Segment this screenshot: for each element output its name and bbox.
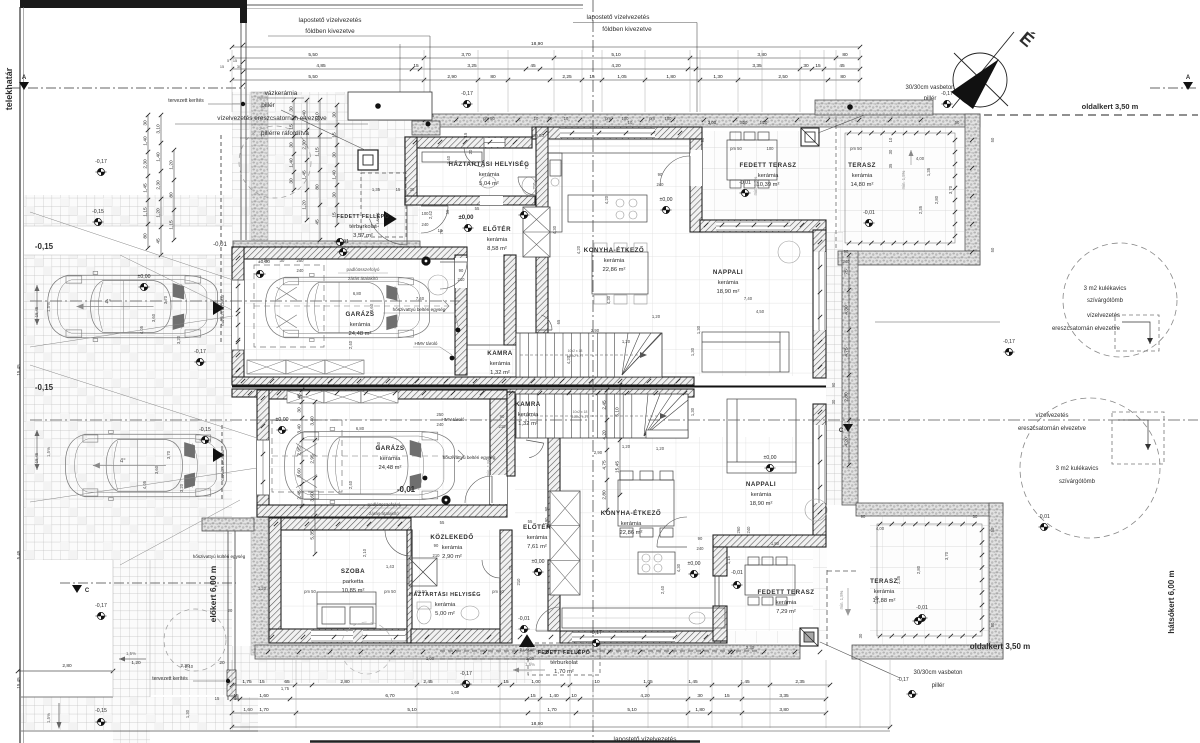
svg-text:1,70: 1,70: [259, 707, 269, 713]
svg-text:1,80: 1,80: [666, 74, 676, 80]
svg-text:1,20: 1,20: [169, 160, 175, 170]
svg-text:5,00 m²: 5,00 m²: [435, 611, 455, 617]
planter circle lower nappali: [756, 509, 758, 511]
stone band lower terasz top: [856, 503, 1003, 516]
svg-text:tervezett kerítés: tervezett kerítés: [168, 98, 204, 104]
svg-text:18,90 m²: 18,90 m²: [750, 501, 773, 507]
svg-text:1,45: 1,45: [143, 183, 149, 193]
svg-text:15: 15: [220, 65, 224, 69]
stairs lower: [516, 394, 688, 438]
walkway corner lower: [202, 518, 254, 531]
svg-text:190: 190: [544, 517, 549, 525]
svg-text:1,40: 1,40: [289, 158, 295, 168]
wall fedett-terasz-lower north: [713, 535, 826, 547]
svg-text:100: 100: [622, 116, 630, 121]
svg-text:10: 10: [534, 116, 539, 121]
wall szoba left: [269, 518, 281, 641]
svg-text:3 m2 kulékavics: 3 m2 kulékavics: [1084, 286, 1127, 292]
svg-text:2,90: 2,90: [594, 450, 603, 455]
svg-text:1,00: 1,00: [526, 656, 535, 661]
svg-text:240: 240: [437, 422, 445, 427]
svg-text:30/30cm vasbeton: 30/30cm vasbeton: [905, 85, 954, 91]
sidewalk white band upper: [24, 226, 232, 255]
svg-text:80: 80: [840, 74, 846, 80]
svg-text:1,20: 1,20: [302, 200, 308, 210]
svg-text:20: 20: [219, 660, 225, 666]
svg-text:75: 75: [508, 565, 513, 570]
svg-text:50: 50: [990, 527, 995, 532]
svg-text:min. 1,5%: min. 1,5%: [839, 590, 844, 609]
svg-text:165x2 x 27: 165x2 x 27: [572, 415, 589, 419]
top dimension chains: [232, 46, 860, 48]
svg-text:SZOBA: SZOBA: [341, 568, 365, 575]
svg-text:7,29 m²: 7,29 m²: [776, 609, 796, 615]
svg-text:80: 80: [490, 74, 496, 80]
X platform upper garage: [247, 360, 286, 374]
svg-text:-0,17: -0,17: [897, 677, 909, 683]
paving below house: [232, 646, 532, 683]
door terasz lower: [657, 517, 687, 547]
wall utility bottom: [405, 196, 535, 205]
svg-text:1,30: 1,30: [185, 709, 190, 718]
svg-text:80: 80: [169, 192, 175, 198]
svg-text:1,80: 1,80: [771, 541, 780, 546]
svg-text:térburkolat: térburkolat: [550, 660, 578, 666]
svg-text:GARÁZS BEJÁRAT: GARÁZS BEJÁRAT: [221, 293, 225, 325]
svg-text:pm 50: pm 50: [850, 146, 862, 151]
svg-text:10: 10: [438, 228, 443, 233]
svg-text:1,20: 1,20: [156, 208, 162, 218]
svg-text:18,90 m²: 18,90 m²: [717, 289, 740, 295]
svg-text:90: 90: [459, 268, 464, 273]
svg-text:80: 80: [315, 184, 321, 190]
svg-text:KONYHA-ÉTKEZŐ: KONYHA-ÉTKEZŐ: [601, 509, 661, 517]
svg-text:kerámia: kerámia: [442, 545, 463, 551]
svg-text:4,30: 4,30: [844, 305, 850, 315]
bottom black line: [310, 740, 700, 743]
svg-text:pm: pm: [649, 116, 655, 121]
kamra upper divider: [467, 344, 536, 346]
soakaway circle upper-right: [1063, 243, 1177, 357]
svg-text:4,50: 4,50: [756, 309, 765, 314]
wall kitchen top: [532, 127, 702, 139]
X platform lower garage: [287, 391, 324, 403]
svg-text:4°: 4°: [120, 459, 126, 465]
dashed circle tree upper-left: [239, 126, 311, 198]
svg-text:2,90: 2,90: [591, 328, 600, 333]
svg-text:15: 15: [463, 132, 468, 137]
svg-text:NAPPALI: NAPPALI: [746, 481, 776, 488]
svg-text:kerámia: kerámia: [852, 173, 873, 179]
svg-text:szívárgótömb: szívárgótömb: [1059, 479, 1096, 485]
left vertical dimension chains: [147, 115, 149, 248]
svg-text:3,10: 3,10: [156, 124, 162, 134]
svg-text:10x2 x 18: 10x2 x 18: [568, 349, 583, 353]
kitchen counter upper: [548, 139, 690, 153]
svg-text:kerámia: kerámia: [527, 535, 548, 541]
svg-text:-0,01: -0,01: [397, 485, 416, 494]
svg-text:3,60: 3,60: [310, 492, 316, 502]
svg-text:lapostető vízelvezetés: lapostető vízelvezetés: [587, 14, 650, 21]
fence hatched post lower: [227, 670, 236, 696]
svg-text:24,48 m²: 24,48 m²: [349, 331, 372, 337]
svg-text:90: 90: [544, 506, 549, 511]
svg-text:FEDETT TERASZ: FEDETT TERASZ: [739, 162, 796, 169]
svg-text:35: 35: [888, 163, 893, 168]
paving walkway strip lower-left: [113, 560, 150, 743]
svg-text:-0,01: -0,01: [739, 180, 751, 186]
svg-text:3,20: 3,20: [179, 483, 184, 492]
svg-text:-0,01: -0,01: [213, 242, 227, 248]
svg-text:30: 30: [831, 399, 836, 404]
svg-text:15: 15: [259, 679, 265, 685]
sofa lower: [727, 399, 796, 473]
svg-text:10,39 m²: 10,39 m²: [757, 182, 780, 188]
svg-text:±0,00: ±0,00: [459, 215, 475, 221]
svg-text:2,42: 2,42: [428, 210, 433, 219]
svg-text:2,95: 2,95: [297, 446, 303, 456]
garden strip east upper: [826, 232, 843, 505]
svg-text:15: 15: [332, 132, 338, 138]
svg-text:14,80 m²: 14,80 m²: [851, 182, 874, 188]
svg-text:NAPPALI: NAPPALI: [713, 269, 743, 276]
svg-text:15: 15: [413, 63, 419, 69]
fedett terasz lower floor: [727, 547, 827, 643]
wall corridor east upper: [536, 257, 548, 333]
bottom dimension chains: [232, 684, 830, 686]
door wc upper: [518, 177, 536, 195]
paving bottom band left: [21, 697, 258, 730]
svg-text:1,30: 1,30: [696, 325, 701, 334]
svg-text:1,5%: 1,5%: [126, 651, 136, 656]
svg-text:4,20: 4,20: [566, 355, 571, 364]
stone band right upper: [965, 114, 980, 265]
svg-text:18,90: 18,90: [531, 721, 543, 727]
svg-text:15,45: 15,45: [16, 677, 21, 689]
svg-text:15,45: 15,45: [34, 452, 39, 463]
svg-text:4,75: 4,75: [602, 460, 608, 470]
door kamra upper: [542, 315, 553, 330]
svg-text:30: 30: [289, 178, 295, 184]
svg-text:kerámia: kerámia: [380, 456, 401, 462]
svg-text:30: 30: [803, 63, 809, 69]
svg-text:45: 45: [156, 238, 162, 244]
svg-text:15: 15: [724, 693, 730, 699]
svg-text:55: 55: [445, 209, 450, 214]
svg-text:10: 10: [763, 120, 768, 125]
parking envelope dashed lower garage: [272, 420, 342, 492]
svg-text:10: 10: [564, 116, 569, 121]
svg-text:2,90 m²: 2,90 m²: [442, 554, 462, 560]
svg-text:55: 55: [440, 520, 445, 525]
svg-text:C: C: [839, 428, 844, 434]
shaft lower (wardrobe): [550, 491, 580, 595]
wall haztartasi-lower bottom: [411, 629, 507, 643]
svg-text:KAMRA: KAMRA: [515, 401, 541, 408]
svg-text:2,10: 2,10: [185, 664, 194, 669]
svg-text:22,86 m²: 22,86 m²: [603, 267, 626, 273]
svg-text:4,20: 4,20: [604, 195, 609, 204]
svg-text:2,80: 2,80: [602, 490, 608, 500]
oldalkert top dashed: [984, 114, 1198, 116]
svg-text:240: 240: [843, 259, 851, 264]
svg-text:30: 30: [289, 106, 295, 112]
entry triangle upper: [384, 211, 397, 227]
svg-text:zárás átalakító: zárás átalakító: [348, 276, 378, 281]
section C left: [60, 582, 236, 584]
svg-text:100: 100: [767, 146, 775, 151]
svg-text:5,10: 5,10: [611, 52, 621, 58]
svg-text:240: 240: [422, 222, 430, 227]
svg-text:1,30: 1,30: [690, 347, 695, 356]
front door arc upper porch: [369, 219, 407, 245]
right/inner vertical dims: [606, 390, 608, 510]
svg-text:±0,00: ±0,00: [764, 455, 777, 461]
svg-text:6,80: 6,80: [353, 291, 362, 296]
svg-text:240: 240: [297, 268, 305, 273]
svg-text:1,40: 1,40: [156, 152, 162, 162]
paving left strip: [24, 195, 232, 560]
svg-text:10,85 m²: 10,85 m²: [342, 588, 365, 594]
svg-text:1,15: 1,15: [169, 220, 175, 230]
svg-text:3,40: 3,40: [310, 416, 316, 426]
svg-text:-0,15: -0,15: [35, 383, 54, 392]
svg-text:5,10: 5,10: [615, 407, 621, 417]
svg-text:KONYHA-ÉTKEZŐ: KONYHA-ÉTKEZŐ: [584, 246, 644, 254]
sofa upper: [702, 332, 789, 372]
svg-text:210: 210: [458, 277, 466, 282]
svg-text:kerámia: kerámia: [604, 258, 625, 264]
door utility upper: [464, 147, 484, 167]
svg-text:vízelvezetés: vízelvezetés: [1035, 413, 1068, 419]
svg-text:1,40: 1,40: [332, 170, 338, 180]
svg-text:pm: pm: [605, 116, 611, 121]
svg-text:3,00: 3,00: [708, 120, 717, 125]
door garage->entry upper: [440, 262, 467, 289]
svg-text:15,45: 15,45: [16, 364, 21, 376]
svg-text:hátsókert 6,00 m: hátsókert 6,00 m: [1167, 570, 1176, 633]
svg-text:2,35: 2,35: [795, 679, 805, 685]
svg-text:HMV tároló: HMV tároló: [415, 341, 438, 346]
svg-text:1,00: 1,00: [531, 679, 541, 685]
svg-text:3,70: 3,70: [461, 52, 471, 58]
svg-text:szívárgótömb: szívárgótömb: [1087, 298, 1124, 304]
svg-text:90: 90: [500, 414, 505, 419]
svg-text:előkert 6,00 m: előkert 6,00 m: [208, 565, 218, 622]
svg-text:1,05: 1,05: [617, 74, 627, 80]
svg-text:-0,17: -0,17: [194, 349, 206, 355]
svg-text:-0,01: -0,01: [1038, 514, 1050, 520]
svg-text:GARÁZS BEJÁRAT: GARÁZS BEJÁRAT: [221, 448, 225, 480]
dashed circle tree lower-left: [164, 609, 226, 671]
wall utility top: [405, 137, 532, 148]
wall szoba top: [269, 518, 411, 530]
svg-text:4,85: 4,85: [316, 63, 326, 69]
svg-text:vázkerámia: vázkerámia: [265, 90, 298, 97]
svg-text:100: 100: [665, 116, 673, 121]
svg-text:kerámia: kerámia: [479, 172, 500, 178]
soakaway square upper-right: [1115, 315, 1159, 351]
svg-text:kerámia: kerámia: [751, 492, 772, 498]
svg-text:2,35: 2,35: [918, 205, 923, 214]
terasz upper inner edge + ticks: [845, 133, 955, 243]
svg-text:földben kivezetve: földben kivezetve: [305, 28, 355, 35]
stone band lower terasz right: [989, 503, 1003, 659]
svg-text:30: 30: [280, 258, 285, 263]
svg-text:2,35: 2,35: [896, 575, 901, 584]
svg-text:3,70: 3,70: [944, 551, 949, 560]
interior tiles: [244, 255, 456, 375]
svg-text:1,40: 1,40: [549, 693, 559, 699]
utility machines: [422, 152, 482, 162]
wall garage-lower bottom: [257, 505, 507, 517]
svg-text:1,20: 1,20: [258, 586, 267, 591]
svg-text:3,35: 3,35: [779, 693, 789, 699]
svg-text:15,45: 15,45: [615, 461, 621, 473]
svg-text:3,57 m²: 3,57 m²: [353, 233, 373, 239]
svg-text:15: 15: [396, 187, 401, 192]
svg-text:30: 30: [237, 65, 241, 69]
wall utility left: [405, 137, 417, 205]
svg-text:3,35: 3,35: [752, 63, 762, 69]
svg-text:90: 90: [658, 172, 663, 177]
wall garage-lower top: [257, 390, 507, 399]
svg-text:ELŐTÉR: ELŐTÉR: [483, 225, 511, 233]
svg-text:3,40: 3,40: [297, 424, 303, 434]
soakaway circle lower-right: [1020, 398, 1160, 538]
svg-text:KÖZLEKEDŐ: KÖZLEKEDŐ: [430, 534, 473, 541]
svg-text:10: 10: [594, 679, 600, 685]
wall corridor west upper: [504, 255, 516, 345]
svg-text:3,20: 3,20: [176, 335, 181, 344]
svg-text:-0,01: -0,01: [518, 616, 530, 622]
svg-text:4,20: 4,20: [640, 693, 650, 699]
svg-text:pm 50: pm 50: [415, 589, 427, 594]
wall entry-lower west lower part: [548, 560, 560, 631]
equipment pad top: [348, 92, 432, 120]
svg-text:4,30: 4,30: [552, 225, 557, 234]
wall nappali north: [700, 220, 826, 232]
svg-text:30: 30: [858, 633, 863, 638]
porch dashed rect upper: [361, 173, 406, 237]
svg-text:hőszivattyú beltéri egység: hőszivattyú beltéri egység: [393, 307, 446, 312]
svg-text:lapostető vízelvezetés: lapostető vízelvezetés: [299, 17, 362, 24]
svg-text:±0,00: ±0,00: [532, 559, 545, 565]
svg-text:pillérre ráfordítva: pillérre ráfordítva: [261, 130, 309, 137]
svg-text:2. LAKÁS: 2. LAKÁS: [520, 648, 535, 652]
svg-text:1,45: 1,45: [874, 595, 879, 604]
svg-text:90: 90: [844, 249, 849, 254]
fence ticks upper: [241, 43, 245, 47]
svg-text:1,40: 1,40: [143, 136, 149, 146]
svg-text:80: 80: [143, 233, 149, 239]
svg-text:3,70: 3,70: [166, 450, 171, 459]
svg-text:4,00: 4,00: [876, 526, 885, 531]
svg-text:telekhatár: telekhatár: [4, 67, 14, 110]
axis lower garage / oldalkert line: [30, 419, 590, 421]
armchair upper: [778, 241, 800, 263]
stone band terasz bottom: [838, 251, 980, 265]
cooktop lower: [638, 552, 675, 574]
svg-text:-0,17: -0,17: [590, 630, 602, 636]
svg-text:C: C: [85, 588, 90, 594]
svg-text:90: 90: [434, 543, 439, 548]
svg-text:210: 210: [516, 578, 521, 586]
svg-text:2,45: 2,45: [297, 490, 303, 500]
unit split dash-dot vertical: [592, 0, 594, 743]
svg-text:210: 210: [532, 182, 537, 190]
svg-text:4,00: 4,00: [916, 156, 925, 161]
svg-text:zárás átalakító: zárás átalakító: [369, 511, 399, 516]
svg-text:90: 90: [698, 536, 703, 541]
svg-text:térburkolat: térburkolat: [349, 224, 377, 230]
equipment pad top2: [815, 100, 933, 115]
svg-text:15: 15: [289, 124, 295, 130]
drive diagonal lines upper: [30, 212, 233, 280]
svg-text:15: 15: [233, 59, 237, 63]
paving right part lower-left: [150, 560, 232, 695]
svg-text:45: 45: [315, 219, 321, 225]
svg-text:1,43: 1,43: [386, 564, 395, 569]
svg-text:±0,00: ±0,00: [660, 197, 673, 203]
svg-text:30: 30: [297, 407, 303, 413]
svg-text:3,60: 3,60: [154, 465, 159, 474]
svg-text:kerámia: kerámia: [487, 237, 508, 243]
svg-text:4,20: 4,20: [844, 437, 850, 447]
svg-text:7,40: 7,40: [416, 296, 425, 301]
svg-text:4,30: 4,30: [606, 295, 611, 304]
glass door lower terasz: [714, 576, 716, 606]
svg-text:4,30: 4,30: [676, 563, 681, 572]
svg-text:3,70: 3,70: [163, 295, 168, 304]
courtyard paving upper: [232, 92, 428, 248]
svg-text:50: 50: [990, 247, 995, 252]
svg-text:6,70: 6,70: [385, 693, 395, 699]
svg-text:2,90: 2,90: [447, 74, 457, 80]
svg-text:30/30cm vasbeton: 30/30cm vasbeton: [913, 670, 962, 676]
vazkeramia piller upper-left: [358, 150, 378, 170]
party wall upper leaf: [232, 377, 694, 385]
svg-text:24,48 m²: 24,48 m²: [379, 465, 402, 471]
washbasin upper utility: [480, 176, 496, 188]
svg-text:2,50: 2,50: [778, 74, 788, 80]
svg-text:50: 50: [973, 514, 978, 519]
svg-text:30: 30: [740, 120, 745, 125]
svg-text:2,40: 2,40: [348, 340, 353, 349]
terasz table lower: [745, 565, 795, 595]
svg-text:90: 90: [831, 382, 836, 387]
svg-text:kerámia: kerámia: [518, 412, 539, 418]
party wall lower leaf: [232, 389, 694, 397]
svg-text:1,80: 1,80: [695, 707, 705, 713]
svg-text:45: 45: [839, 63, 845, 69]
svg-text:1,30: 1,30: [713, 74, 723, 80]
svg-text:4,20: 4,20: [611, 63, 621, 69]
vasbeton piller 30/30 lower: [800, 628, 818, 646]
svg-text:kerámia: kerámia: [758, 173, 779, 179]
door garage->kozlekedo lower: [465, 476, 492, 503]
svg-text:min. 1,5%: min. 1,5%: [901, 170, 906, 189]
vasbeton piller 30/30 upper: [801, 128, 819, 146]
svg-text:5,10: 5,10: [407, 707, 417, 713]
svg-text:TERASZ: TERASZ: [870, 578, 898, 585]
wall haztartasi-lower east: [500, 530, 512, 643]
svg-text:tervezett kerítés: tervezett kerítés: [152, 676, 188, 682]
property line left (telekhatar): [19, 7, 21, 743]
roof overhang dashed lower: [826, 570, 828, 646]
svg-text:-0,15: -0,15: [95, 708, 107, 714]
svg-text:1,60: 1,60: [243, 707, 253, 713]
